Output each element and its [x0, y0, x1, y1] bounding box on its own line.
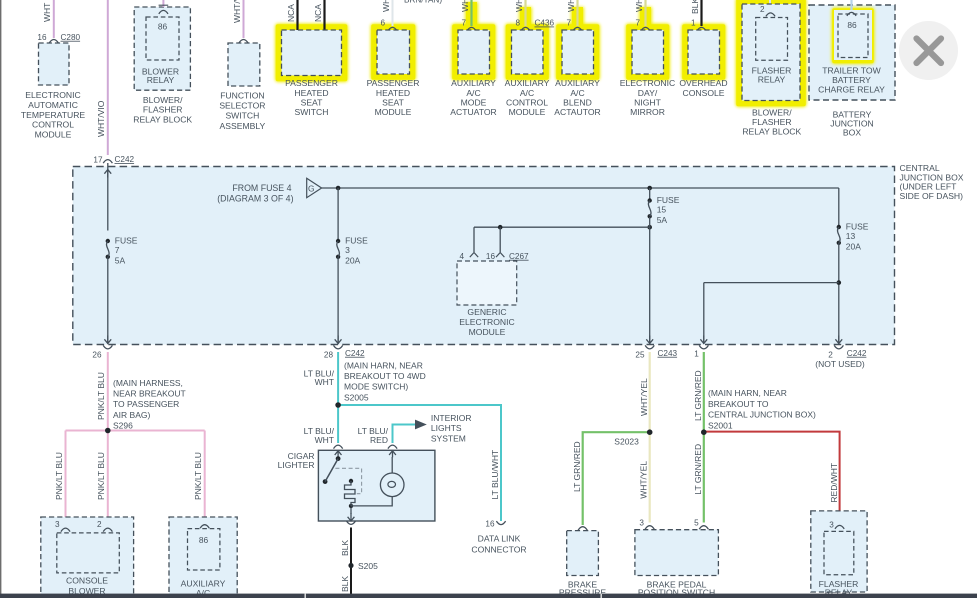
svg-text:16: 16: [486, 252, 496, 261]
svg-text:CONTROL: CONTROL: [506, 97, 548, 107]
wire fuse15 to exit 25: [649, 217, 651, 344]
wire WHT/YEL to brake pedal switch pin 3: [649, 432, 651, 522]
svg-text:FLASHER: FLASHER: [752, 117, 792, 127]
wire lamp top: [391, 457, 393, 473]
svg-text:LT GRN/RED: LT GRN/RED: [693, 444, 703, 495]
wire RED/WHT to flasher relay: [704, 432, 840, 523]
svg-text:(MAIN HARN, NEAR: (MAIN HARN, NEAR: [708, 388, 787, 398]
svg-text:PASSENGER: PASSENGER: [367, 78, 420, 88]
svg-text:BLK: BLK: [340, 576, 350, 592]
svg-text:BLEND: BLEND: [563, 97, 592, 107]
wire WHT/VIO to CJB pin 17: [107, 0, 109, 155]
node junction GEM pin16 tap: [498, 225, 503, 230]
cigar lighter box: [334, 445, 343, 449]
svg-text:OVERHEAD: OVERHEAD: [679, 78, 727, 88]
svg-text:CHARGE RELAY: CHARGE RELAY: [818, 85, 885, 95]
svg-text:7: 7: [115, 245, 120, 255]
svg-text:ASSEMBLY: ASSEMBLY: [220, 121, 266, 131]
wire PNK to console blower pin 2: [107, 431, 109, 526]
flasher relay inner box bottom: [824, 531, 854, 574]
auxiliary ac inner relay box: [188, 529, 220, 570]
svg-text:A/C: A/C: [570, 88, 584, 98]
svg-text:4: 4: [459, 252, 464, 261]
wire NCA left: [296, 0, 298, 30]
auxiliary ac control module box highlighted: [505, 24, 550, 81]
svg-text:86: 86: [158, 21, 168, 31]
svg-text:16: 16: [485, 520, 495, 529]
svg-text:NCA: NCA: [286, 4, 296, 22]
wire BLK below S205: [350, 566, 352, 595]
svg-text:C242: C242: [345, 349, 365, 358]
switch SW1 blade: [325, 459, 338, 482]
wire PNK branch horizontal: [66, 430, 205, 432]
svg-text:C436: C436: [535, 19, 555, 28]
cigar lighter pin1 arrow: [337, 451, 339, 458]
wire GEM pin4 drop: [473, 227, 475, 252]
svg-text:TEMPERATURE: TEMPERATURE: [21, 110, 86, 120]
svg-text:3: 3: [55, 520, 60, 529]
svg-text:DATA LINK: DATA LINK: [478, 534, 521, 544]
svg-text:16: 16: [37, 33, 47, 42]
svg-text:WHT: WHT: [634, 0, 644, 12]
svg-text:INTERIOR: INTERIOR: [431, 413, 472, 423]
svg-text:15: 15: [657, 205, 667, 215]
svg-text:S2023: S2023: [614, 437, 639, 447]
svg-text:TO PASSENGER: TO PASSENGER: [113, 399, 179, 409]
svg-text:7: 7: [566, 19, 571, 28]
wire WHT to seat module: [392, 0, 394, 26]
wire GEM pin16 drop: [499, 227, 501, 252]
electronic day night mirror box highlighted: [626, 24, 671, 81]
svg-text:BATTERY: BATTERY: [832, 75, 871, 85]
svg-text:RELAY: RELAY: [758, 75, 786, 85]
svg-text:PNK/LT BLU: PNK/LT BLU: [54, 452, 64, 500]
svg-text:GENERIC: GENERIC: [467, 307, 506, 317]
svg-text:6: 6: [380, 19, 385, 28]
svg-text:HEATED: HEATED: [294, 88, 328, 98]
svg-text:C242: C242: [115, 155, 135, 164]
svg-text:AUXILIARY: AUXILIARY: [555, 78, 600, 88]
svg-text:MIRROR: MIRROR: [630, 107, 665, 117]
function selector switch assembly box: [239, 40, 248, 44]
flasher relay box bottom: [811, 511, 867, 592]
svg-text:MODE SWITCH): MODE SWITCH): [344, 382, 408, 392]
wire feeder corner down to fuse 13: [838, 188, 840, 227]
svg-text:FUSE: FUSE: [846, 222, 869, 232]
blower flasher relay block right highlighted: [736, 0, 807, 107]
wire fuse15 drop: [649, 188, 651, 201]
central junction box outline: [73, 167, 895, 345]
svg-text:RED: RED: [370, 435, 388, 445]
svg-text:RED/WHT: RED/WHT: [829, 463, 839, 503]
cigar lighter pin2 arrow: [392, 451, 394, 458]
svg-text:7: 7: [635, 19, 640, 28]
svg-text:WHT: WHT: [381, 0, 391, 12]
svg-text:28: 28: [324, 350, 334, 359]
svg-text:3: 3: [829, 520, 834, 529]
wire to mirror highlighted: [639, 7, 652, 28]
svg-text:86: 86: [847, 20, 857, 30]
svg-text:FUSE: FUSE: [345, 236, 368, 246]
svg-text:WHT: WHT: [315, 377, 334, 387]
switch SW1 contacts: [336, 456, 341, 461]
console blower box: [41, 517, 134, 597]
wire LT GRN to mode actuator highlighted: [465, 2, 478, 28]
svg-text:LT BLU/WHT: LT BLU/WHT: [490, 450, 500, 500]
wire GEM branch horizontal: [474, 226, 650, 228]
auxiliary ac box: [169, 517, 237, 597]
svg-text:RELAY: RELAY: [147, 75, 175, 85]
svg-text:SIDE OF DASH): SIDE OF DASH): [900, 191, 964, 201]
svg-text:WHT/VIO: WHT/VIO: [96, 100, 106, 137]
node junction S below fuse13: [837, 280, 842, 285]
svg-text:25: 25: [635, 350, 645, 359]
svg-text:CENTRAL JUNCTION BOX): CENTRAL JUNCTION BOX): [708, 410, 816, 420]
auxiliary ac blend actuator box highlighted: [556, 24, 601, 81]
svg-text:TRAILER TOW: TRAILER TOW: [822, 66, 881, 76]
wire LT BLU/WHT to data link connector: [338, 405, 501, 521]
node junction fuse 3 tap: [336, 186, 341, 191]
electronic automatic temperature control module box: [49, 40, 58, 44]
svg-text:WHT: WHT: [42, 3, 52, 22]
svg-text:FLASHER: FLASHER: [143, 105, 183, 115]
svg-text:S205: S205: [358, 561, 378, 571]
svg-text:17: 17: [93, 156, 103, 165]
wire stub to blower relay: [162, 0, 164, 7]
svg-text:ELECTRONIC: ELECTRONIC: [620, 78, 675, 88]
generic electronic module box: [457, 261, 517, 305]
svg-text:NEAR BREAKOUT: NEAR BREAKOUT: [113, 389, 186, 399]
svg-text:WHT/YEL: WHT/YEL: [639, 461, 649, 499]
svg-text:C243: C243: [658, 349, 678, 358]
wire to blend actuator highlighted: [571, 7, 584, 28]
svg-text:AUTOMATIC: AUTOMATIC: [28, 100, 78, 110]
wire element to lamp: [351, 497, 392, 506]
svg-text:2: 2: [97, 520, 102, 529]
blower flasher relay block box left: [134, 7, 190, 90]
close button: [899, 21, 958, 80]
pin 25 C243 connector: [645, 345, 654, 349]
svg-text:ACTUATOR: ACTUATOR: [450, 107, 496, 117]
svg-text:CONTROL: CONTROL: [32, 120, 74, 130]
wire LT BLU/RED lamp feed: [393, 425, 416, 444]
svg-text:AIR BAG): AIR BAG): [113, 410, 150, 420]
svg-text:G: G: [308, 183, 315, 193]
svg-text:FUSE: FUSE: [115, 236, 138, 246]
svg-text:S296: S296: [113, 420, 133, 430]
svg-text:8: 8: [515, 19, 520, 28]
heating element R1: [349, 479, 353, 483]
svg-text:C267: C267: [509, 252, 529, 261]
wire PNK/LT BLU from pin 26: [107, 352, 109, 431]
wire LT BLU to trailer tow relay: [850, 0, 852, 11]
svg-text:WHT/VIO: WHT/VIO: [232, 0, 242, 23]
passenger heated seat module box highlighted: [371, 24, 417, 81]
pin 26 connector: [103, 345, 112, 349]
svg-text:BLOWER/: BLOWER/: [752, 108, 792, 118]
wire WHT/VIO to function selector: [243, 0, 245, 38]
passenger heated seat switch box highlighted: [275, 24, 348, 83]
svg-text:PNK/LT BLU: PNK/LT BLU: [96, 372, 106, 420]
fuse F3 20A: [336, 239, 340, 243]
fuse F13 20A: [837, 225, 841, 229]
wire PNK to console blower pin 3: [65, 431, 67, 526]
switch linkage dashed: [335, 468, 361, 493]
svg-text:AUXILIARY: AUXILIARY: [505, 78, 550, 88]
trailer tow battery charge relay highlighted: [832, 8, 875, 65]
node splice S205: [348, 563, 353, 568]
svg-text:3: 3: [345, 245, 350, 255]
wire BLK to S205: [350, 528, 352, 566]
svg-text:C280: C280: [61, 33, 81, 42]
brake pressure switch box: [578, 527, 587, 531]
wire LT GRN/RED from pin 1: [703, 352, 705, 432]
wire PNK to auxiliary ac pin 86: [204, 431, 206, 522]
svg-text:WHT: WHT: [460, 0, 470, 12]
svg-text:S2001: S2001: [708, 420, 733, 430]
fuse F15 5A: [648, 198, 652, 202]
node splice S296: [105, 428, 111, 434]
svg-text:7: 7: [461, 19, 466, 28]
svg-text:BLOWER/: BLOWER/: [143, 95, 183, 105]
wire NCA right: [323, 0, 325, 30]
svg-text:MODULE: MODULE: [35, 129, 72, 139]
svg-text:FUNCTION: FUNCTION: [220, 91, 264, 101]
svg-text:26: 26: [92, 350, 102, 359]
pin 1 connector: [699, 345, 708, 349]
svg-text:13: 13: [846, 231, 856, 241]
svg-text:3: 3: [639, 519, 644, 528]
node junction below fuse 15: [647, 225, 652, 230]
svg-text:(NOT USED): (NOT USED): [815, 359, 865, 369]
svg-text:MODULE: MODULE: [375, 107, 412, 117]
wire fuse13 down: [838, 243, 840, 344]
svg-text:AUXILIARY: AUXILIARY: [451, 78, 496, 88]
node G feed triangle: [307, 178, 322, 197]
wire WHT/YEL from pin 25: [649, 352, 651, 432]
svg-text:LT GRN/RED: LT GRN/RED: [693, 370, 703, 421]
svg-text:WHT: WHT: [514, 0, 524, 12]
svg-text:CONSOLE: CONSOLE: [66, 576, 108, 586]
svg-text:20A: 20A: [345, 256, 360, 266]
svg-text:RELAY BLOCK: RELAY BLOCK: [133, 114, 192, 124]
svg-text:NCA: NCA: [313, 4, 323, 22]
svg-text:SELECTOR: SELECTOR: [219, 101, 265, 111]
pin 28 C242 connector: [334, 345, 343, 349]
cigar lighter ground connector: [346, 521, 355, 525]
svg-text:BREAKOUT TO: BREAKOUT TO: [708, 399, 769, 409]
svg-text:BREAKOUT TO 4WD: BREAKOUT TO 4WD: [344, 371, 426, 381]
svg-text:5A: 5A: [657, 215, 668, 225]
svg-text:BRN/TAN): BRN/TAN): [404, 0, 442, 5]
svg-text:20A: 20A: [846, 242, 861, 252]
svg-text:BOX: BOX: [843, 127, 861, 137]
flasher relay box top: [756, 18, 788, 61]
wire fuse7 to exit 26: [107, 257, 109, 344]
svg-text:(MAIN HARN, NEAR: (MAIN HARN, NEAR: [344, 361, 423, 371]
svg-text:WHT/YEL: WHT/YEL: [639, 378, 649, 416]
svg-text:PASSENGER: PASSENGER: [285, 78, 338, 88]
svg-text:PNK/LT BLU: PNK/LT BLU: [96, 452, 106, 500]
node splice S2023: [647, 429, 653, 435]
svg-text:PNK/LT BLU: PNK/LT BLU: [193, 452, 203, 500]
fuse F7 5A: [106, 239, 110, 243]
battery junction box: [809, 5, 895, 100]
wire fuse3 to exit 28: [337, 257, 339, 344]
svg-text:MODULE: MODULE: [469, 327, 506, 337]
svg-text:NIGHT: NIGHT: [634, 97, 661, 107]
wire pin17 entry: [107, 163, 109, 231]
svg-text:(DIAGRAM 3 OF 4): (DIAGRAM 3 OF 4): [217, 193, 293, 203]
svg-text:RELAY BLOCK: RELAY BLOCK: [742, 127, 801, 137]
svg-text:BLK: BLK: [340, 540, 350, 556]
node splice S2005: [335, 402, 341, 408]
wire branch to exit 1 horizontal: [704, 282, 839, 284]
wire LT GRN/RED to brake pedal switch pin 5: [703, 432, 705, 522]
svg-text:MODULE: MODULE: [509, 107, 546, 117]
left window edge: [0, 0, 1, 598]
svg-text:5A: 5A: [115, 256, 126, 266]
interior lights system arrow: [415, 420, 427, 430]
wire LT BLU/WHT to cigar lighter: [337, 405, 339, 443]
wire feeder horizontal: [322, 187, 839, 189]
wire branch to exit 1 vertical: [703, 283, 705, 344]
node junction fuse 15 tap: [647, 186, 652, 191]
svg-text:LIGHTS: LIGHTS: [431, 423, 462, 433]
svg-text:ELECTRONIC: ELECTRONIC: [25, 90, 80, 100]
bottom bar: [0, 594, 977, 598]
svg-text:LIGHTER: LIGHTER: [278, 460, 315, 470]
svg-text:LT GRN/RED: LT GRN/RED: [572, 441, 582, 492]
svg-text:WHT: WHT: [315, 435, 334, 445]
svg-text:AUXILIARY: AUXILIARY: [181, 578, 226, 588]
svg-text:(MAIN HARNESS,: (MAIN HARNESS,: [113, 378, 183, 388]
wire LT GRN/RED to brake pressure switch: [583, 432, 650, 525]
wire WHT/YEL to control module highlighted: [519, 7, 532, 28]
svg-text:DAY/: DAY/: [638, 88, 658, 98]
svg-text:C242: C242: [847, 349, 867, 358]
svg-text:CONSOLE: CONSOLE: [682, 88, 724, 98]
wire BLK to overhead console: [700, 0, 702, 26]
svg-text:5: 5: [694, 519, 699, 528]
wire stub to flasher relay: [769, 0, 771, 11]
wire fuse3 drop: [337, 188, 339, 241]
svg-text:A/C: A/C: [466, 88, 480, 98]
data link connector pin 16: [496, 521, 505, 525]
svg-text:SWITCH: SWITCH: [225, 111, 259, 121]
lamp L1: [380, 473, 404, 497]
svg-text:ELECTRONIC: ELECTRONIC: [459, 317, 514, 327]
svg-text:FROM FUSE 4: FROM FUSE 4: [232, 183, 291, 193]
svg-text:SEAT: SEAT: [382, 97, 405, 107]
svg-text:S2005: S2005: [344, 392, 369, 402]
node splice S2001: [701, 429, 707, 435]
svg-text:86: 86: [199, 535, 209, 545]
wire LT BLU/WHT from pin 28: [337, 352, 339, 405]
overhead console box highlighted: [682, 24, 727, 81]
cigar lighter ground exit arrow: [350, 513, 352, 521]
blower relay box: [146, 17, 179, 60]
svg-text:1: 1: [691, 19, 696, 28]
svg-text:HEATED: HEATED: [376, 88, 410, 98]
svg-text:FUSE: FUSE: [657, 195, 680, 205]
svg-text:MODE: MODE: [461, 97, 487, 107]
svg-text:1: 1: [694, 350, 699, 359]
pin 2 C242 connector not used: [834, 345, 843, 349]
svg-text:A/C: A/C: [520, 88, 534, 98]
auxiliary ac mode actuator box highlighted: [452, 24, 497, 81]
svg-text:WHT: WHT: [566, 0, 576, 12]
svg-text:SEAT: SEAT: [301, 97, 324, 107]
svg-text:CONNECTOR: CONNECTOR: [471, 544, 526, 554]
svg-text:SYSTEM: SYSTEM: [431, 433, 466, 443]
svg-text:SWITCH: SWITCH: [295, 107, 329, 117]
svg-text:BLK: BLK: [690, 0, 700, 14]
console blower inner box: [57, 533, 120, 573]
wire WHT to EATC: [53, 0, 55, 38]
svg-text:2: 2: [760, 5, 765, 14]
svg-text:ACTAUTOR: ACTAUTOR: [554, 107, 600, 117]
